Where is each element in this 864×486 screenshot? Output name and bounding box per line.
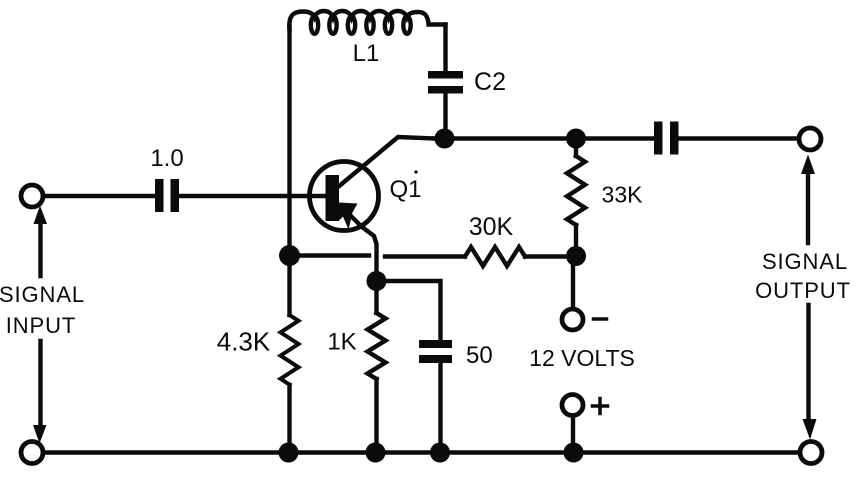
svg-text:SIGNAL: SIGNAL xyxy=(762,249,848,274)
junction 33K top node xyxy=(566,129,586,149)
label minus sign xyxy=(594,317,607,321)
wire base node to 30K (left of emitter crossover) xyxy=(294,253,369,257)
terminal plus xyxy=(562,395,583,416)
wire left vertical (L1 left lead down through base crossing to 4.3K) xyxy=(287,26,291,315)
wire emitter node to 50 cap xyxy=(377,281,441,340)
artifact dot above Q1 xyxy=(414,170,417,173)
resistor 33K xyxy=(567,156,585,225)
arrow signal output lower shaft xyxy=(806,305,810,420)
svg-text:12 VOLTS: 12 VOLTS xyxy=(529,345,635,371)
svg-text:L1: L1 xyxy=(353,40,380,67)
resistor 1K xyxy=(368,313,386,379)
inductor L1 loop 1 xyxy=(311,16,318,34)
junction rail 1K xyxy=(366,443,386,463)
transistor Q1 emitter arrow xyxy=(339,203,358,230)
svg-text:50: 50 xyxy=(466,342,493,369)
transistor Q1 collector line xyxy=(338,137,434,187)
wire input line left segment xyxy=(43,194,154,198)
terminal input top xyxy=(21,185,43,207)
svg-text:SIGNAL: SIGNAL xyxy=(0,282,85,307)
wire L1 right lead down to C2 xyxy=(443,25,447,72)
inductor L1 loop 5 xyxy=(385,16,392,34)
inductor L1 loop 3 xyxy=(348,16,355,34)
svg-text:1K: 1K xyxy=(327,329,356,356)
junction 33K/30K/minus node xyxy=(566,246,586,266)
wire output node to terminal xyxy=(679,136,800,140)
arrow signal input lower head xyxy=(33,425,47,444)
junction collector/C2 node xyxy=(435,129,455,149)
arrow signal input lower shaft xyxy=(38,341,42,426)
svg-text:Q1: Q1 xyxy=(389,176,421,203)
capacitor 1.0 plates xyxy=(155,179,179,212)
resistor 1K top lead xyxy=(374,286,378,313)
wire 33K/30K node down to minus terminal xyxy=(571,260,575,308)
svg-text:33K: 33K xyxy=(602,182,644,208)
terminal output bottom xyxy=(800,442,822,464)
wire C2 bottom lead to collector node xyxy=(443,94,447,138)
inductor L1 loop 4 xyxy=(366,16,373,34)
capacitor C2 plates xyxy=(428,71,463,94)
wire 50 cap bottom lead xyxy=(438,363,442,450)
inductor L1 loop 2 xyxy=(329,16,336,34)
wire 33K bottom lead xyxy=(574,225,578,252)
wire plus terminal to bottom rail xyxy=(571,416,575,450)
wire input line right segment to base xyxy=(180,194,327,198)
svg-text:INPUT: INPUT xyxy=(6,313,77,338)
wire 30K left lead (right of emitter crossover) xyxy=(385,254,465,258)
transistor Q1 base bar xyxy=(326,175,340,221)
svg-text:OUTPUT: OUTPUT xyxy=(755,278,851,303)
junction rail 50 xyxy=(430,443,450,463)
junction emitter/1K/50 node xyxy=(367,271,387,291)
wire 1K bottom lead xyxy=(374,379,378,450)
resistor 30K xyxy=(465,247,525,266)
arrow signal input upper shaft xyxy=(38,220,42,276)
wire bottom rail xyxy=(43,450,799,454)
resistor 33K top lead xyxy=(574,142,578,156)
wire collector node horizontal xyxy=(434,136,653,140)
junction rail plus xyxy=(564,443,584,463)
wire 30K right lead xyxy=(525,254,570,258)
svg-text:4.3K: 4.3K xyxy=(217,327,271,357)
label plus sign xyxy=(593,399,608,414)
svg-text:1.0: 1.0 xyxy=(150,145,183,172)
arrow signal output lower head xyxy=(803,419,817,440)
svg-text:30K: 30K xyxy=(469,213,514,241)
transistor Q1 circle xyxy=(310,162,379,231)
junction rail 4.3K xyxy=(279,443,299,463)
capacitor output coupling plates xyxy=(654,122,679,155)
inductor L1 loop 6 xyxy=(403,16,410,34)
inductor L1 coil chain xyxy=(289,11,445,30)
junction base/L1/4.3K/30K node xyxy=(279,245,300,266)
transistor Q1 emitter line xyxy=(341,206,377,272)
arrow signal output upper shaft xyxy=(806,172,810,243)
arrow signal output upper head xyxy=(801,155,815,175)
terminal minus xyxy=(562,309,583,330)
arrow signal input upper head xyxy=(34,206,48,225)
resistor 4.3K xyxy=(281,315,299,385)
wire 4.3K bottom lead xyxy=(287,385,291,450)
terminal output top xyxy=(799,128,821,150)
terminal input bottom xyxy=(21,442,43,464)
capacitor 50 plates xyxy=(419,340,452,363)
svg-text:C2: C2 xyxy=(474,68,506,96)
